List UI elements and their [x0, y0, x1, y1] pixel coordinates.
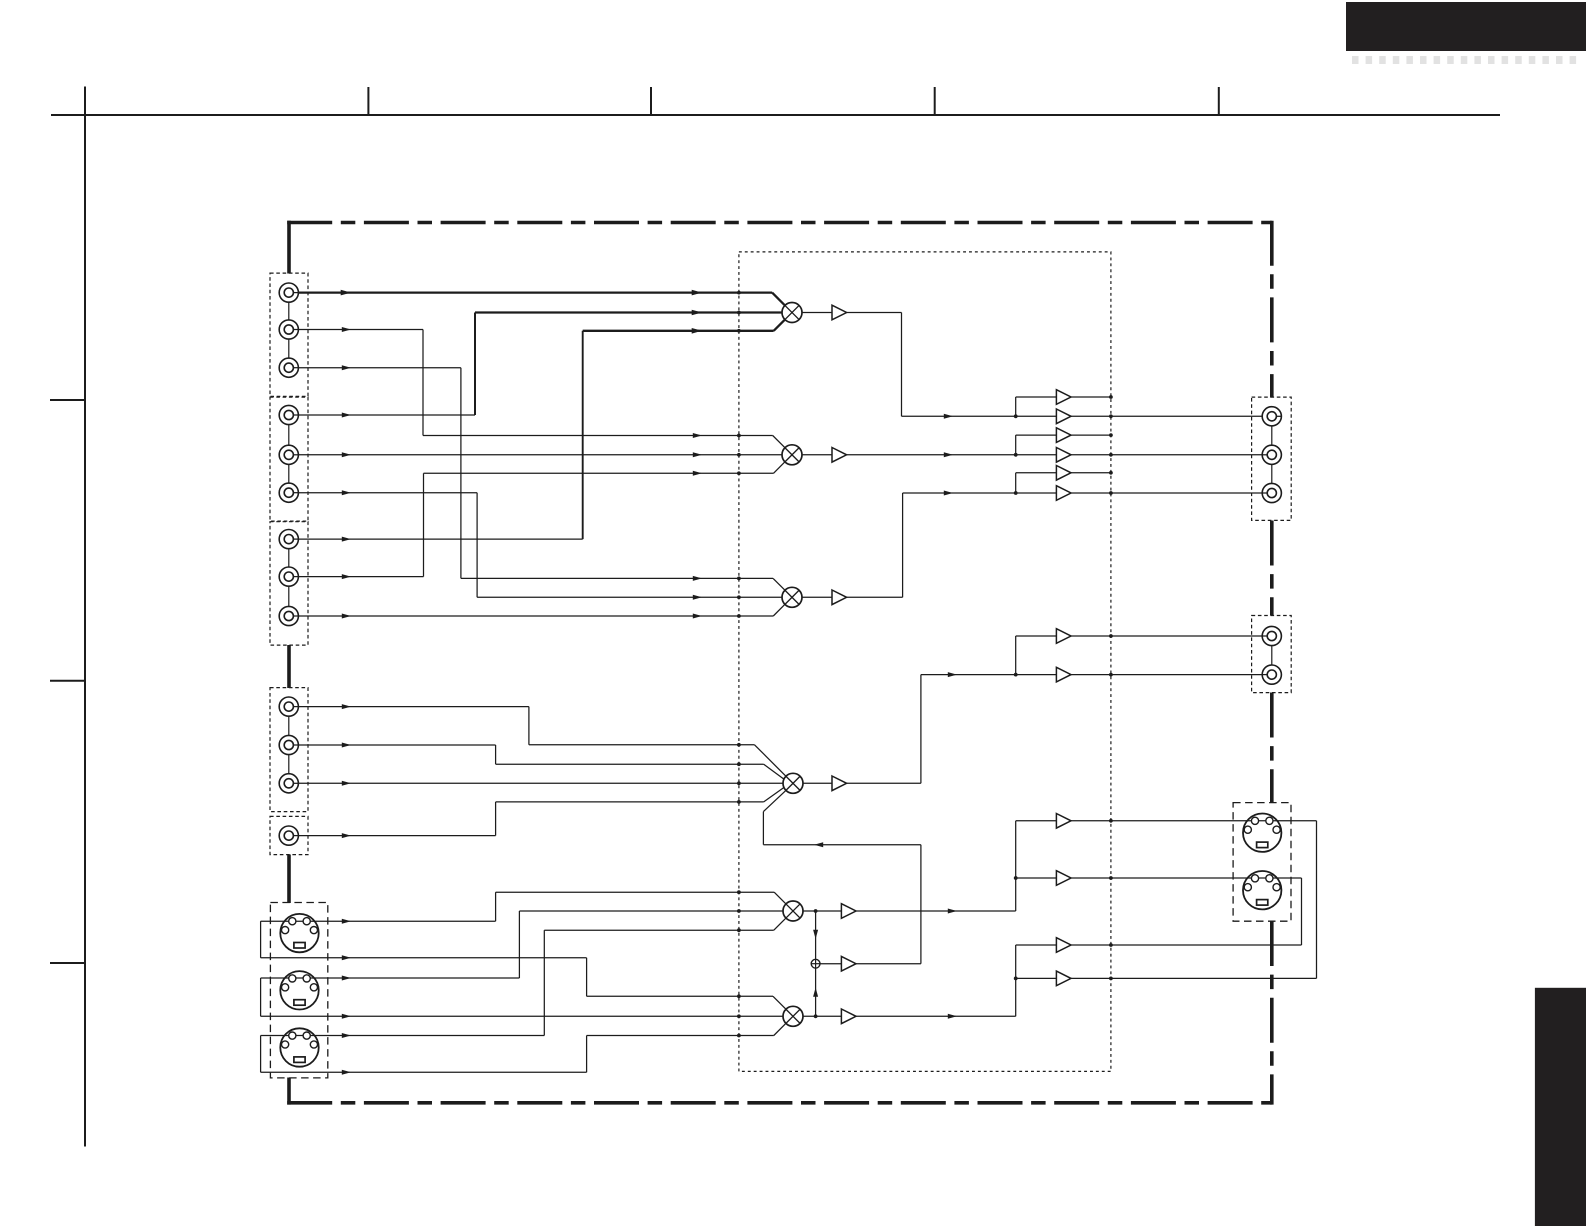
video in3 jack	[279, 774, 298, 793]
buffer U4, wire to component out Pb	[1016, 454, 1057, 456]
wire mixer M2 output to Pb line drivers	[802, 454, 832, 456]
buffer A3 after M3	[832, 590, 847, 605]
link line output group 1	[1271, 416, 1273, 493]
component in3 Y jack	[279, 530, 298, 549]
wire s-video-in1 Y to mixer M5	[261, 920, 496, 922]
wire component-in2 Pr to mixer M3	[298, 492, 477, 494]
link line input group 2	[288, 415, 290, 493]
input jack group box 5	[270, 816, 308, 854]
wire mixer M1 output to Y line drivers	[802, 312, 832, 314]
component out Pb jack	[1262, 445, 1281, 464]
s-video out1 connector	[1243, 814, 1281, 852]
s-video in3 connector	[280, 1028, 318, 1066]
wire mixer M5 to summing node	[815, 911, 817, 959]
wire s-video-in1 C to mixer M6	[261, 957, 587, 959]
output jack group box 2 (monitor video)	[1252, 616, 1292, 693]
component in2 Pb jack	[279, 445, 298, 464]
component in1 Pr jack	[279, 358, 298, 377]
wire component-in3 Pb to mixer M2	[298, 576, 423, 578]
video in1 jack	[279, 697, 298, 716]
buffer A1 after M1	[832, 305, 847, 320]
input jack group box 4	[270, 688, 308, 812]
component in3 Pr jack	[279, 606, 298, 625]
wire component-in2 Pb to mixer M2	[298, 454, 782, 456]
buffer A4 after M4	[832, 776, 847, 791]
wire video-in2 to mixer M4	[298, 744, 495, 746]
black sidebar bottom-right	[1535, 988, 1586, 1226]
buffer U2, wire to component out Y	[1016, 415, 1057, 417]
wire mixer M3 output to Pr line drivers	[802, 596, 832, 598]
buffer U6, wire to component out Pr	[1016, 492, 1057, 494]
page frame vertical rule	[84, 87, 86, 1147]
monitor video out2 jack	[1262, 665, 1281, 684]
mixer M3 (Pr select)	[782, 587, 802, 607]
mixer M4 (video select)	[783, 773, 803, 793]
component in2 Y jack	[279, 405, 298, 424]
wire mixer M5 output to s-video Y drivers	[803, 910, 841, 912]
buffer U13 (composite sum)	[841, 956, 856, 971]
buffer A5 after M5	[841, 904, 856, 919]
chassis border left segments	[287, 221, 291, 274]
buffer U5 and Pr tap	[1016, 472, 1057, 474]
buffer U3 and Pb tap	[1016, 434, 1057, 436]
component out Pr jack	[1262, 483, 1281, 502]
mixer M1 (Y select)	[782, 303, 802, 323]
wire mixer M4 output to video line drivers	[803, 782, 832, 784]
buffer U8, wire to monitor video out 2	[1016, 674, 1057, 676]
link line input group 1	[288, 293, 290, 368]
buffer A6 after M6	[841, 1009, 856, 1024]
input jack group box 3	[270, 522, 308, 645]
page frame horizontal rule	[51, 114, 1500, 116]
black title bar top-right	[1346, 2, 1586, 51]
wire component-in3 Y to mixer M1	[298, 538, 583, 540]
input jack group box 2	[270, 397, 308, 521]
wire summing node feedback to mixer M4	[820, 963, 841, 965]
link line input group 4	[288, 707, 290, 784]
wire video-in4 to mixer M4	[298, 835, 495, 837]
buffer U9, wire to s-video out1 Y	[1016, 820, 1057, 822]
chassis border bottom edge	[287, 1101, 1272, 1105]
buffer U1 and monitor-out Y tap	[1016, 396, 1057, 398]
mixer M2 (Pb select)	[782, 445, 802, 465]
s-video in1 bracket	[260, 921, 262, 958]
component in1 Pb jack	[279, 320, 298, 339]
s-video in2 bracket	[260, 978, 262, 1016]
monitor video out1 jack	[1262, 626, 1281, 645]
s-video input group box	[270, 903, 327, 1078]
component in2 Pr jack	[279, 483, 298, 502]
link line input group 3	[288, 539, 290, 616]
wire mixer M6 output to s-video C drivers	[803, 1015, 841, 1017]
s-video in3 bracket	[260, 1036, 262, 1073]
video in4 jack	[279, 826, 298, 845]
buffer U10, wire to s-video out2 Y	[1016, 877, 1057, 879]
wire component-in1 Y to mixer M1 (selected, bold)	[298, 291, 772, 293]
chassis border right segments	[1270, 221, 1274, 398]
buffer A2 after M2	[832, 448, 847, 463]
component out Y jack	[1262, 407, 1281, 426]
component in1 Y jack	[279, 283, 298, 302]
video in2 jack	[279, 735, 298, 754]
wire s-video-in2 C to mixer M6	[261, 1015, 783, 1017]
s-video in2 connector	[280, 971, 318, 1009]
wire video-in1 to mixer M4	[298, 706, 529, 708]
wire component-in1 Pb to mixer M2	[298, 329, 423, 331]
s-video in1 connector	[280, 914, 318, 952]
buffer U11, wire to s-video out2 C	[1016, 944, 1057, 946]
input jack group box 1	[270, 273, 308, 396]
wire component-in1 Pr to mixer M3	[298, 367, 461, 369]
wire mixer M6 to summing node	[815, 968, 817, 1016]
s-video output group box	[1233, 803, 1291, 922]
buffer U12, wire to s-video out1 C	[1016, 977, 1057, 979]
chassis border top edge	[287, 221, 1272, 225]
wire component-in2 Y to mixer M1	[298, 414, 475, 416]
mixer M6 (s-video C select)	[783, 1006, 803, 1026]
faint header remnants	[1352, 56, 1359, 64]
video switching block (dotted box)	[739, 252, 1111, 1072]
mixer M5 (s-video Y select)	[783, 901, 803, 921]
wire s-video-in3 C to mixer M6	[261, 1071, 587, 1073]
summing node	[811, 959, 820, 968]
buffer U7, wire to monitor video out 1	[1016, 635, 1057, 637]
s-video out2 connector	[1243, 871, 1281, 909]
link line output group 2	[1271, 636, 1273, 675]
wire s-video-in3 Y to mixer M5	[261, 1035, 545, 1037]
wire s-video-in2 Y to mixer M5	[261, 977, 520, 979]
output jack group box 1 (monitor component)	[1252, 397, 1292, 520]
wire video-in3 to mixer M4	[298, 782, 783, 784]
component in3 Pb jack	[279, 567, 298, 586]
wire component-in3 Pr to mixer M3	[298, 615, 773, 617]
